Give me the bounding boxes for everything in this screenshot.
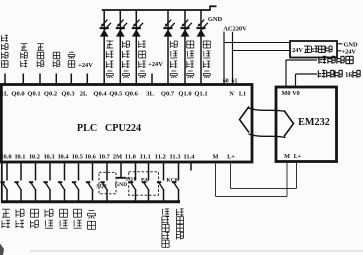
LED indicator HL1 Q0.4 bbox=[100, 27, 109, 29]
svg-text:I0.2: I0.2 bbox=[29, 154, 40, 161]
wire AC N to 24V PSU bbox=[233, 50, 291, 52]
label 急停 (I0.6) bbox=[89, 210, 95, 212]
svg-text:Q1.1: Q1.1 bbox=[194, 91, 207, 98]
pushbutton switch SB3 停机 (I0.2) bbox=[29, 181, 33, 183]
wire LED column HL4 Q0.7 (bus to PLC terminal) bbox=[167, 10, 169, 85]
pushbutton switch SB5 中速 (I0.4) bbox=[58, 181, 62, 183]
pushbutton switch KC0 故障复位 (I1.3) bbox=[172, 181, 176, 183]
label 正转 (I0.0) bbox=[2, 208, 10, 210]
wire input column SQ2 (I0.7) bbox=[106, 162, 108, 180]
LED indicator HL4 Q0.7 bbox=[163, 27, 172, 29]
svg-text:+24V: +24V bbox=[342, 48, 357, 55]
pushbutton switch PA (I1.1) bbox=[142, 181, 146, 183]
input common bus bbox=[1, 200, 180, 203]
label 高速 (I0.5) bbox=[74, 208, 82, 210]
wire AC L to 24V PSU bbox=[224, 42, 290, 44]
label 低速指示 (LED Q0.7) bbox=[169, 41, 171, 48]
wire input column KC0 故障复位 (I1.3) bbox=[178, 162, 180, 180]
svg-text:L+: L+ bbox=[294, 153, 302, 160]
svg-text:M0: M0 bbox=[282, 90, 291, 97]
svg-text:I0.7: I0.7 bbox=[99, 154, 110, 161]
svg-text:Q0.3: Q0.3 bbox=[61, 91, 75, 98]
wire N (AC220V to PLC terminal 60) bbox=[223, 32, 225, 85]
GND bus for indicator LEDs bbox=[102, 9, 210, 11]
wire input column SB7 急停 (I0.6) bbox=[92, 162, 94, 180]
wire M0 riser to 插机板地 bbox=[285, 60, 287, 87]
label 插机板地 bbox=[318, 56, 320, 63]
wire input column PA (I1.1) bbox=[148, 162, 150, 180]
svg-text:L+: L+ bbox=[227, 154, 235, 161]
wire input column SB3 停机 (I0.2) bbox=[35, 162, 37, 180]
svg-text:I1.1: I1.1 bbox=[140, 154, 151, 161]
wire input column SB6 高速 (I0.5) bbox=[78, 162, 80, 180]
svg-text:I1.0: I1.0 bbox=[125, 154, 136, 161]
label 插机板16脚 bbox=[317, 70, 319, 77]
wire input column SB1 正转 (I0.0) bbox=[6, 162, 8, 180]
svg-text:2L: 2L bbox=[80, 91, 88, 98]
label 故障指示 (LED Q0.6) bbox=[138, 41, 140, 48]
LED indicator HL2 Q0.5 bbox=[116, 27, 125, 29]
svg-text:I0.4: I0.4 bbox=[58, 154, 69, 161]
svg-text:I1.4: I1.4 bbox=[184, 154, 195, 161]
terminal tick Q0.0 (top row) bbox=[22, 74, 24, 85]
wire L+: PLC L+ to EM232 L+ bbox=[230, 164, 232, 189]
limit switch SQ2 dashed enclosure bbox=[99, 172, 116, 194]
svg-text:Q0.4: Q0.4 bbox=[93, 91, 107, 98]
label 停机 (I0.2) bbox=[31, 208, 39, 210]
svg-text:Q0.7: Q0.7 bbox=[161, 91, 175, 98]
svg-text:Q0.1: Q0.1 bbox=[27, 91, 40, 98]
svg-text:+24V: +24V bbox=[148, 61, 163, 68]
svg-text:I0.3: I0.3 bbox=[44, 154, 55, 161]
label 开停机 (terminal Q0.1) bbox=[37, 43, 44, 45]
wire M: PLC M to EM232 M bbox=[215, 164, 217, 197]
svg-text:N: N bbox=[229, 91, 234, 98]
ground bar (2M) bbox=[116, 177, 125, 179]
pushbutton switch SB6 高速 (I0.5) bbox=[72, 181, 76, 183]
svg-text:+24V: +24V bbox=[78, 62, 93, 69]
wire LED column HL5 Q1.0 (bus to PLC terminal) bbox=[184, 10, 186, 85]
svg-text:1L: 1L bbox=[1, 91, 9, 98]
label 高速指示 (LED Q1.1) bbox=[203, 40, 210, 42]
wire input column SB2 反转 (I0.1) bbox=[20, 162, 22, 180]
terminal tick 1L (top row) bbox=[4, 74, 6, 85]
GND bus end hook bbox=[209, 6, 211, 11]
svg-text:3L: 3L bbox=[146, 91, 154, 98]
svg-text:60: 60 bbox=[223, 78, 229, 84]
svg-text:AC220V: AC220V bbox=[223, 26, 247, 33]
PSU output stub GND bbox=[337, 43, 342, 45]
terminal tick Q0.1 (top row) bbox=[39, 74, 41, 85]
label 复位 (terminal Q0.2) bbox=[53, 51, 60, 53]
wire LED column HL1 Q0.4 (bus to PLC terminal) bbox=[103, 10, 105, 85]
PSU output stub +24V bbox=[337, 50, 341, 52]
svg-text:I0.1: I0.1 bbox=[15, 154, 26, 161]
wire V0 riser to 插机板16脚 bbox=[295, 74, 297, 87]
svg-text:I0.5: I0.5 bbox=[72, 154, 83, 161]
wire LED column HL3 Q0.6 (bus to PLC terminal) bbox=[135, 10, 137, 85]
label 故障复位 (I1.3) bbox=[175, 209, 177, 216]
svg-text:GND: GND bbox=[208, 16, 223, 23]
sensors SQ1 PA dashed enclosure bbox=[129, 172, 159, 195]
svg-text:V0: V0 bbox=[292, 90, 300, 97]
label 反转指示 (LED Q0.5) bbox=[122, 41, 124, 48]
pushbutton switch SB7 急停 (I0.6) bbox=[86, 181, 90, 183]
wire left rail (PLC corner to input common bus) bbox=[1, 162, 3, 202]
pushbutton switch SQ1 (I1.0) bbox=[129, 181, 133, 183]
24V switching power supply box bbox=[290, 41, 337, 58]
LED indicator HL6 Q1.1 bbox=[196, 27, 205, 29]
svg-text:Q0.2: Q0.2 bbox=[44, 91, 57, 98]
wire input column 变频器故障 contact (I1.2) bbox=[163, 162, 165, 180]
pushbutton switch SB4 低速 (I0.3) bbox=[43, 181, 47, 183]
PLC CPU224 main unit box bbox=[1, 85, 252, 163]
label 反转 (I0.1) bbox=[15, 209, 17, 217]
label 正反转 (terminal Q0.0) bbox=[21, 43, 28, 45]
svg-text:M: M bbox=[213, 154, 219, 161]
label 中速指示 (LED Q1.0) bbox=[187, 40, 194, 42]
svg-text:I0.6: I0.6 bbox=[85, 154, 96, 161]
svg-text:I1.2: I1.2 bbox=[155, 154, 166, 161]
svg-text:Q0.5: Q0.5 bbox=[109, 91, 123, 98]
svg-text:Q1.0: Q1.0 bbox=[178, 91, 191, 98]
LED indicator HL3 Q0.6 bbox=[132, 27, 141, 29]
svg-text:I0.0: I0.0 bbox=[1, 154, 12, 161]
label 插机板地 (terminal 1L) bbox=[0, 35, 2, 42]
svg-text:I1.3: I1.3 bbox=[170, 154, 181, 161]
wire L1 (AC220V to PLC terminal 61) bbox=[232, 32, 234, 85]
ribbon cable connector PLC-EM232 (double arrow) bbox=[240, 107, 250, 133]
svg-text:GND: GND bbox=[344, 41, 358, 48]
pushbutton switch 变频器故障 contact (I1.2) bbox=[157, 181, 161, 183]
svg-text:EM232: EM232 bbox=[298, 117, 330, 128]
svg-text:M: M bbox=[284, 153, 290, 160]
wire input column SQ1 (I1.0) bbox=[135, 162, 137, 180]
svg-text:2M: 2M bbox=[113, 154, 122, 161]
svg-text:Q0.6: Q0.6 bbox=[125, 91, 139, 98]
terminal tick 2L (top row) bbox=[86, 74, 88, 85]
terminal tick Q0.3 (top row) bbox=[70, 74, 72, 85]
svg-text:Q0.0: Q0.0 bbox=[11, 91, 24, 98]
pushbutton switch SQ2 (I0.7) bbox=[100, 181, 104, 183]
svg-text:PLC CPU224: PLC CPU224 bbox=[77, 123, 141, 134]
wire input column SB5 中速 (I0.4) bbox=[64, 162, 66, 180]
svg-text:61: 61 bbox=[232, 78, 238, 84]
svg-text:24V: 24V bbox=[292, 47, 303, 54]
terminal tick 3L (top row) bbox=[151, 74, 153, 85]
pushbutton switch SB1 正转 (I0.0) bbox=[0, 181, 4, 183]
label 变频器故障 (I1.2) bbox=[162, 215, 169, 217]
wire LED column HL2 Q0.5 (bus to PLC terminal) bbox=[119, 10, 121, 85]
pushbutton switch SB2 反转 (I0.1) bbox=[14, 181, 18, 183]
label 低速 (I0.3) bbox=[44, 209, 46, 217]
wire input column SB4 低速 (I0.3) bbox=[49, 162, 51, 180]
label 正转指示 (LED Q0.4) bbox=[106, 40, 113, 42]
scan artifact: faint rule near bottom bbox=[30, 250, 363, 252]
EM232 analog output module box bbox=[276, 87, 337, 162]
terminal tick I1.4 (bottom row, unwired) bbox=[190, 162, 192, 170]
label 急停 (terminal Q0.3) bbox=[69, 51, 74, 53]
terminal tick Q0.2 (top row) bbox=[55, 74, 57, 85]
svg-text:L1: L1 bbox=[239, 91, 246, 98]
LED indicator HL5 Q1.0 bbox=[180, 27, 189, 29]
wire LED column HL6 Q1.1 (bus to PLC terminal) bbox=[200, 10, 202, 85]
label 中速 (I0.4) bbox=[60, 208, 68, 210]
scan artifact: bottom-left corner smudge bbox=[0, 244, 4, 255]
svg-text:GND: GND bbox=[115, 182, 127, 188]
wire 2M to GND bbox=[120, 162, 122, 177]
svg-text:16: 16 bbox=[345, 71, 353, 79]
svg-text:SQ2: SQ2 bbox=[96, 184, 106, 190]
